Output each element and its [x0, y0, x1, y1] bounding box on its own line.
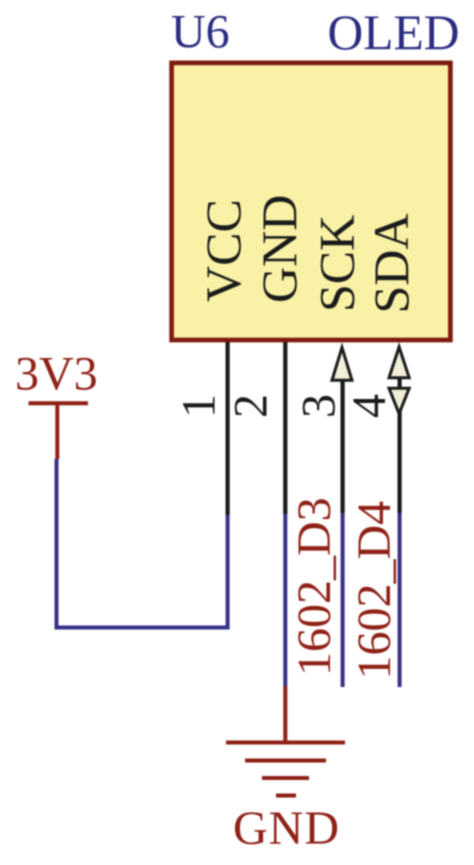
- svg-text:OLED: OLED: [328, 5, 460, 60]
- pin 4 bidirectional arrow: [389, 347, 409, 414]
- svg-text:SDA: SDA: [363, 213, 419, 313]
- wire pin2 to gnd blue: [283, 514, 287, 686]
- svg-text:1: 1: [172, 394, 225, 418]
- svg-text:2: 2: [224, 394, 277, 418]
- wire pin3 net blue: [341, 513, 345, 687]
- svg-text:VCC: VCC: [195, 199, 251, 302]
- svg-text:U6: U6: [171, 6, 230, 59]
- pin 3 arrow: [332, 348, 352, 381]
- power symbol 3V3 bar: [29, 401, 89, 405]
- pin 3 wire: [341, 381, 345, 513]
- pin 2 wire: [283, 342, 287, 514]
- svg-text:3: 3: [293, 394, 346, 418]
- svg-text:3V3: 3V3: [15, 347, 98, 400]
- svg-text:GND: GND: [233, 802, 340, 855]
- ground symbol: [226, 743, 345, 796]
- wire 3V3 net blue: [57, 459, 228, 628]
- component U6 OLED body: [172, 63, 451, 340]
- wire pin4 net blue: [398, 513, 402, 687]
- svg-text:GND: GND: [251, 195, 307, 303]
- pin 4 wire: [398, 377, 402, 513]
- svg-text:SCK: SCK: [309, 215, 365, 312]
- power symbol 3V3 stub: [55, 403, 59, 459]
- pin 1 wire: [226, 342, 230, 515]
- svg-text:4: 4: [343, 394, 396, 418]
- svg-text:1602_D3: 1602_D3: [288, 497, 341, 676]
- ground stub wire: [283, 686, 287, 743]
- svg-text:1602_D4: 1602_D4: [348, 501, 401, 680]
